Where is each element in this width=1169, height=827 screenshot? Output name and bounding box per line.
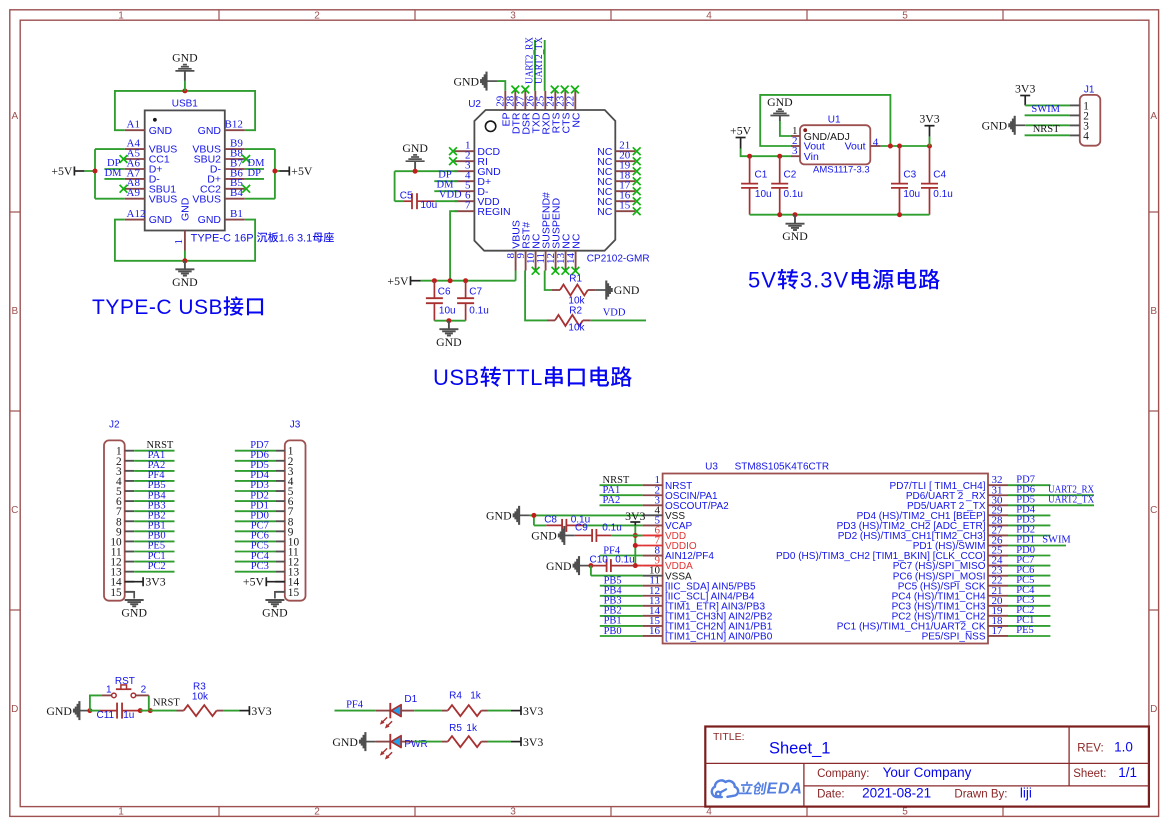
svg-text:5V: 5V: [748, 268, 777, 293]
wire J3 pin 12 net PC4: [235, 561, 275, 563]
junction 3V3/C4: [927, 144, 932, 149]
U3 pin 14 ([TIM1_CH3N] AIN2/PB2): [643, 615, 663, 617]
J2 pin 13: [125, 571, 135, 573]
svg-text:CP2102-GMR: CP2102-GMR: [587, 253, 650, 264]
svg-text:C6: C6: [438, 287, 451, 298]
wire PF4 to D1: [335, 710, 376, 712]
svg-text:3V3: 3V3: [145, 575, 165, 589]
U1 pin 1 (GND/ADJ): [791, 135, 800, 137]
ground GND flag (VSS): [486, 506, 530, 525]
svg-text:1k: 1k: [466, 723, 478, 734]
J2 pin 12: [125, 561, 135, 563]
junction top GND: [182, 88, 187, 93]
power flag 3V3 (J2 pin14): [125, 581, 143, 583]
ground GND at U2 EP: [453, 72, 497, 91]
svg-text:15: 15: [110, 587, 122, 599]
U3 pin 18 (PC1 (HS)/TIM1_CH1/UART2_CK): [988, 625, 1008, 627]
svg-text:+5V: +5V: [51, 164, 73, 178]
svg-text:GND: GND: [332, 735, 358, 749]
junction C11 right: [138, 708, 143, 713]
svg-text:J2: J2: [109, 420, 120, 431]
svg-text:0.1u: 0.1u: [469, 306, 488, 317]
U2 pin 22 (NC) top: [574, 91, 576, 110]
U3 pin 5 (VCAP): [643, 524, 663, 526]
ground GND right of R1: [596, 281, 640, 300]
wire U3 net PD6: [1008, 494, 1094, 496]
svg-text:VBUS: VBUS: [192, 193, 221, 205]
wire J2 pin 12 net PC1: [134, 561, 174, 563]
U3 pin 30 (PD5/UART 2 _TX): [988, 504, 1008, 506]
svg-text:3V3: 3V3: [625, 509, 645, 523]
J3 pin 6: [275, 500, 285, 502]
U3 pin 7 (VDDIO): [643, 545, 663, 547]
svg-text:PA2: PA2: [603, 495, 621, 506]
U3 pin 27 (PD2 (HS)/TIM3_CH1[TIM2_CH3]): [988, 534, 1008, 536]
wire U3 net PC3: [1008, 605, 1050, 607]
svg-text:GND: GND: [436, 335, 462, 349]
svg-text:UART2_TX: UART2_TX: [534, 37, 545, 84]
no-connect X pin1: [449, 147, 457, 155]
junction C6 top: [432, 278, 437, 283]
U3 pin 15 ([TIM1_CH2N] AIN1/PB1): [643, 625, 663, 627]
svg-text:J3: J3: [290, 420, 301, 431]
wire J3 pin 2 net PD6: [235, 460, 275, 462]
svg-text:TYPE-C USB: TYPE-C USB: [92, 296, 223, 319]
wire SUSPEND# pin11 down to R1: [545, 271, 552, 291]
svg-text:15: 15: [619, 200, 631, 212]
J3 pin 5: [275, 490, 285, 492]
wire Vout pin2 loop to pin4 rail: [760, 95, 890, 146]
wire button loop: [90, 695, 149, 710]
svg-text:7: 7: [465, 200, 471, 212]
U3 pin 4 (VSS): [643, 514, 663, 516]
svg-text:C3: C3: [903, 170, 916, 181]
svg-text:4: 4: [1083, 130, 1089, 142]
resistor R1 10k: [552, 274, 596, 307]
no-connect X A8: [120, 185, 128, 193]
svg-text:liji: liji: [1020, 785, 1032, 800]
svg-text:B: B: [11, 306, 18, 317]
J3 pin 8: [275, 520, 285, 522]
wire J2 pin 4 net PF4: [134, 480, 174, 482]
IC U3 STM8S105K4T6CTR: [643, 462, 1008, 644]
wire DM to pin5: [434, 190, 458, 192]
wire J2 pin 9 net PB1: [134, 530, 174, 532]
wire J2 pin 7 net PB3: [134, 510, 174, 512]
svg-text:+5V: +5V: [387, 274, 409, 288]
wire RST# pin9 down to R2: [525, 271, 547, 321]
wire J3 pin 5 net PD3: [235, 490, 275, 492]
svg-text:NC: NC: [571, 233, 583, 249]
svg-text:D: D: [11, 704, 18, 715]
capacitor C9 0.1u: [575, 523, 622, 542]
J3 pin 3: [275, 470, 285, 472]
svg-text:+5V: +5V: [730, 124, 752, 138]
svg-text:GND: GND: [149, 125, 173, 137]
USB1 pin B4 (VBUS): [225, 198, 245, 200]
wire C11 to NRST node: [140, 710, 150, 712]
svg-text:1: 1: [106, 685, 112, 696]
USB1 pin A1 (GND): [125, 129, 145, 131]
wire U3 net PC7: [1008, 565, 1050, 567]
J3 pin 10: [275, 540, 285, 542]
wire U3 net PB4: [600, 595, 643, 597]
capacitor C10 0.1u: [590, 555, 636, 572]
U3 pin 26 (PD1 (HS)/SWIM): [988, 545, 1008, 547]
wire J3 pin 9 net PC7: [235, 530, 275, 532]
junction C2 bottom: [777, 212, 782, 217]
U2 pin 17 (NC): [615, 190, 635, 192]
svg-text:10u: 10u: [903, 189, 920, 200]
svg-text:4: 4: [873, 136, 879, 148]
LED PWR: [376, 734, 428, 759]
svg-text:B12: B12: [225, 119, 243, 131]
connector J1: [1069, 84, 1100, 145]
power flag 3V3 (U1): [919, 112, 939, 137]
wire GND to C11: [90, 710, 100, 712]
svg-text:3: 3: [792, 145, 798, 157]
wire U3 net PD4: [1008, 514, 1050, 516]
J1 pin 3: [1069, 124, 1080, 126]
J3 pin 2: [275, 460, 285, 462]
J3 pin 13: [275, 571, 285, 573]
svg-text:16: 16: [649, 625, 661, 637]
svg-text:5: 5: [902, 11, 908, 22]
U3 pin 2 (OSCIN/PA1): [643, 494, 663, 496]
wire U3 net PD0: [1008, 555, 1050, 557]
wire J2 pin 6 net PB4: [134, 500, 174, 502]
ground GND bottom of USB1: [172, 261, 198, 289]
wire J3 pin 1 net PD7: [235, 450, 275, 452]
U3 pin 17 (PE5/SPI_NSS): [988, 635, 1008, 637]
wire PF4: [600, 555, 643, 557]
no-connect X bottom: [572, 267, 580, 275]
svg-text:R2: R2: [569, 305, 582, 316]
svg-text:U3: U3: [705, 462, 718, 473]
ground GND above U1: [767, 95, 793, 121]
wire PWR LED to R5: [414, 741, 441, 743]
svg-text:SWIM: SWIM: [1042, 535, 1071, 546]
svg-text:C5: C5: [400, 190, 413, 201]
section title TYPE-C USB接口: [92, 296, 263, 319]
connector J3: [275, 420, 305, 601]
power flag 3V3 (U3): [625, 509, 645, 526]
wire B9-B4 VBUS loop right: [245, 149, 279, 199]
U3 pin 10 (VSSA): [643, 575, 663, 577]
wire C9 to VDD: [612, 535, 643, 537]
junction +5V right: [272, 169, 277, 174]
no-connect X B5: [242, 185, 250, 193]
J3 pin 11: [275, 551, 285, 553]
svg-text:2: 2: [141, 685, 147, 696]
section title 5V转3.3V电源电路: [748, 268, 940, 293]
svg-text:1u: 1u: [123, 710, 134, 721]
capacitor C6 10u: [426, 281, 456, 321]
svg-text:R4: R4: [449, 691, 462, 702]
wire GND to pin1: [780, 121, 791, 136]
capacitor C5: [400, 190, 437, 210]
capacitor C4 0.1u: [921, 146, 953, 215]
svg-text:B4: B4: [230, 187, 243, 199]
wire NRST to J1 pin4: [1025, 134, 1070, 136]
junction VSS: [531, 513, 536, 518]
J2 pin 4: [125, 480, 135, 482]
wire DM to A7: [104, 178, 124, 180]
wire 3V3 lead: [929, 137, 931, 146]
svg-text:PWR: PWR: [404, 739, 427, 750]
title block: [705, 727, 1149, 807]
U2 pin 21 (NC): [615, 150, 635, 152]
svg-text:22: 22: [565, 96, 577, 107]
junction C3 bottom: [897, 212, 902, 217]
svg-text:SWIM: SWIM: [1031, 104, 1060, 115]
svg-text:C: C: [11, 505, 18, 516]
J3 pin 15: [275, 591, 285, 593]
connector USB1 (TYPE-C 16P): [120, 99, 334, 251]
J2 pin 11: [125, 551, 135, 553]
svg-text:4: 4: [706, 807, 712, 818]
no-connect X bottom: [532, 267, 540, 275]
capacitor C2 0.1u: [771, 156, 803, 215]
svg-text:A: A: [1150, 111, 1157, 122]
svg-text:2: 2: [314, 11, 320, 22]
svg-text:C1: C1: [755, 170, 768, 181]
svg-text:Sheet:: Sheet:: [1073, 768, 1106, 780]
svg-text:PC3: PC3: [251, 561, 269, 572]
svg-text:PE5/SPI_NSS: PE5/SPI_NSS: [922, 632, 986, 643]
no-connect X top: [561, 86, 569, 94]
wire J2 pin 8 net PB2: [134, 520, 174, 522]
svg-text:DM: DM: [105, 168, 123, 179]
capacitor C1 10u: [741, 156, 771, 215]
wire EP pin29 to GND: [497, 81, 505, 91]
svg-text:NRST: NRST: [153, 698, 180, 709]
wire REGIN pin7 down to +5V rail: [450, 211, 458, 281]
svg-text:1: 1: [118, 807, 124, 818]
U3 pin 9 (VDDA): [643, 565, 663, 567]
capacitor C8 0.1u: [544, 515, 590, 532]
svg-text:GND: GND: [149, 214, 173, 226]
wire U3 net PD2: [1008, 535, 1050, 537]
svg-text:GND: GND: [46, 704, 72, 718]
U2 pin 19 (NC): [615, 170, 635, 172]
J2 pin 7: [125, 510, 135, 512]
U3 pin 1 (NRST): [643, 484, 663, 486]
J2 pin 1: [125, 450, 135, 452]
svg-text:C11: C11: [97, 710, 115, 721]
wire 3V3 vertical to VDD/VDDIO/VDDA: [634, 525, 636, 565]
svg-text:A12: A12: [127, 208, 146, 220]
U2 pin 12 (SUSPEND) bottom: [555, 251, 557, 271]
wire J3 pin 6 net PD2: [235, 500, 275, 502]
U3 pin 11 ([IIC_SDA] AIN5/PB5): [643, 585, 663, 587]
svg-text:GND: GND: [172, 275, 198, 289]
svg-text:14: 14: [565, 253, 577, 265]
ground GND below U1 rail: [782, 215, 808, 243]
U1 pin 2 (Vout): [791, 145, 800, 147]
U3 pin 20 (PC3 (HS)/TIM1_CH3): [988, 605, 1008, 607]
svg-text:EDA: EDA: [767, 781, 803, 798]
resistor R5 1k: [442, 723, 488, 747]
svg-text:TYPE-C 16P: TYPE-C 16P: [191, 232, 254, 244]
U3 pin 6 (VDD): [643, 534, 663, 536]
junction loop-pin4: [888, 144, 893, 149]
USB1 pin A9 (VBUS): [125, 198, 145, 200]
wire B7 to DM: [245, 168, 264, 170]
svg-text:Company:: Company:: [817, 768, 869, 780]
U3 pin 22 (PC5 (HS)/SPI_SCK): [988, 585, 1008, 587]
svg-text:GND: GND: [546, 559, 572, 573]
wire U3 net PC6: [1008, 575, 1050, 577]
wire VSS row: [530, 515, 643, 525]
U2 pin 1 (DCD): [454, 150, 474, 152]
svg-text:1/1: 1/1: [1118, 765, 1137, 780]
USB1 pin B5 (CC2): [225, 188, 245, 190]
svg-text:GND: GND: [402, 141, 428, 155]
no-connect X pin 20: [633, 157, 641, 165]
wire U3 net PB0: [600, 635, 643, 637]
wire +5V rail: [421, 271, 516, 281]
svg-text:3V3: 3V3: [523, 704, 543, 718]
wire pin4 to 3V3 rail: [881, 145, 930, 147]
ground GND (PWR LED): [332, 732, 376, 751]
svg-text:C9: C9: [575, 523, 588, 534]
connector J2: [104, 420, 134, 601]
J3 pin 4: [275, 480, 285, 482]
U2 pin 6 (VDD): [454, 200, 474, 202]
wire J3 pin 11 net PC5: [235, 551, 275, 553]
svg-text:C: C: [1150, 505, 1157, 516]
wire GND to J1 pin3: [1025, 124, 1069, 126]
svg-text:REGIN: REGIN: [477, 206, 510, 218]
wire VSSA loop: [591, 566, 643, 576]
U3 pin 31 (PD6/UART 2 _RX): [988, 494, 1008, 496]
U3 pin 19 (PC2 (HS)/TIM1_CH2): [988, 615, 1008, 617]
junction VDDA: [633, 563, 638, 568]
svg-text:[TIM1_CH1N] AIN0/PB0: [TIM1_CH1N] AIN0/PB0: [665, 632, 773, 643]
wire R2 to VDD: [591, 319, 646, 321]
U2 pin 23 (CTS) top: [564, 91, 566, 110]
svg-text:Sheet_1: Sheet_1: [769, 740, 830, 758]
no-connect X bottom: [562, 267, 570, 275]
wire J2 pin 11 net PE5: [134, 551, 174, 553]
svg-text:RST: RST: [115, 676, 135, 687]
wire J3 pin 8 net PD0: [235, 520, 275, 522]
U2 pin 11 (SUSPEND#) bottom: [545, 251, 547, 271]
wire U3 net PC4: [1008, 595, 1050, 597]
svg-text:3V3: 3V3: [523, 735, 543, 749]
junction C1: [747, 154, 752, 159]
junction GND stem: [793, 212, 798, 217]
svg-text:10u: 10u: [421, 200, 438, 211]
svg-text:3: 3: [510, 807, 516, 818]
svg-text:TITLE:: TITLE:: [713, 731, 745, 743]
U3 pin 23 (PC6 (HS)/SPI_MOSI): [988, 575, 1008, 577]
junction VDD: [633, 533, 638, 538]
wire B6 to DP: [245, 178, 264, 180]
svg-text:GND: GND: [531, 529, 557, 543]
U1 pin 3 (Vin): [791, 155, 800, 157]
USB1 pin B1 (GND): [225, 219, 245, 221]
no-connect X pin 17: [633, 187, 641, 195]
U2 pin 16 (NC): [615, 200, 635, 202]
svg-text:TTL: TTL: [502, 365, 543, 390]
svg-text:2021-08-21: 2021-08-21: [862, 785, 931, 800]
svg-text:VDD: VDD: [603, 308, 626, 319]
svg-text:5: 5: [902, 807, 908, 818]
U3 pin 16 ([TIM1_CH1N] AIN0/PB0): [643, 635, 663, 637]
svg-text:NC: NC: [597, 206, 613, 218]
wire U3 net PD5: [1008, 504, 1094, 506]
wire DP to A6: [104, 168, 124, 170]
U3 pin 3 (OSCOUT/PA2): [643, 504, 663, 506]
svg-text:A9: A9: [127, 187, 141, 199]
wire U3 net PE5: [1008, 635, 1050, 637]
no-connect X A5: [120, 155, 128, 163]
svg-text:J1: J1: [1084, 84, 1095, 95]
svg-text:2: 2: [314, 807, 320, 818]
svg-text:1: 1: [118, 11, 124, 22]
svg-text:C4: C4: [933, 170, 946, 181]
ground GND flag (C10): [546, 556, 590, 575]
U2 pin 2 (RI): [454, 160, 474, 162]
LED D1: [376, 694, 418, 728]
svg-text:15: 15: [288, 587, 300, 599]
svg-text:GND: GND: [179, 197, 191, 221]
svg-text:NRST: NRST: [1033, 124, 1060, 135]
svg-text:Drawn By:: Drawn By:: [954, 788, 1007, 800]
EasyEDA logo: [712, 780, 803, 797]
svg-text:1.6 3.1: 1.6 3.1: [279, 232, 313, 244]
svg-text:C10: C10: [590, 555, 609, 566]
wire U3 net PB5: [600, 585, 643, 587]
svg-text:D: D: [1150, 704, 1157, 715]
ground GND (J3 pin15): [275, 592, 285, 599]
U1 pin 4 (Vout): [870, 145, 881, 147]
ground GND flag (C9): [531, 526, 575, 545]
J1 pin 1: [1069, 104, 1080, 106]
U2 pin 7 (REGIN): [454, 210, 474, 212]
wire +5V down to Vin: [741, 149, 791, 157]
wire U3 net PC1: [1008, 625, 1050, 627]
wire R5 to 3V3: [488, 741, 512, 743]
capacitor C7 0.1u: [457, 281, 489, 321]
USB1 pin B7 (D-): [225, 168, 245, 170]
no-connect X pin 21: [633, 147, 641, 155]
J2 pin 3: [125, 470, 135, 472]
wire C6-C7 bottom rail: [434, 320, 465, 322]
U2 pin 27 (DSR) top: [524, 91, 526, 110]
U2 pin 24 (RTS) top: [554, 91, 556, 110]
svg-text:3V3: 3V3: [251, 704, 271, 718]
section title USB转TTL串口电路: [433, 365, 632, 390]
U2 pin 10 (NC) bottom: [535, 251, 537, 271]
U2 pin 26 (TXD) top: [534, 91, 536, 110]
J2 pin 9: [125, 530, 135, 532]
svg-text:USB: USB: [433, 365, 480, 390]
J3 pin 1: [275, 450, 285, 452]
svg-text:3V3: 3V3: [1015, 82, 1035, 96]
J3 pin 12: [275, 561, 285, 563]
capacitor C3 10u: [891, 146, 920, 215]
svg-text:GND: GND: [614, 283, 640, 297]
IC U2 CP2102-GMR: [449, 86, 650, 275]
wire U3 net PD3: [1008, 524, 1050, 526]
wire J2 pin 10 net PB0: [134, 540, 174, 542]
wire +5V left to VBUS loop: [84, 149, 124, 199]
junction VDDIO: [633, 543, 638, 548]
wire U3 net PA2: [600, 504, 643, 506]
